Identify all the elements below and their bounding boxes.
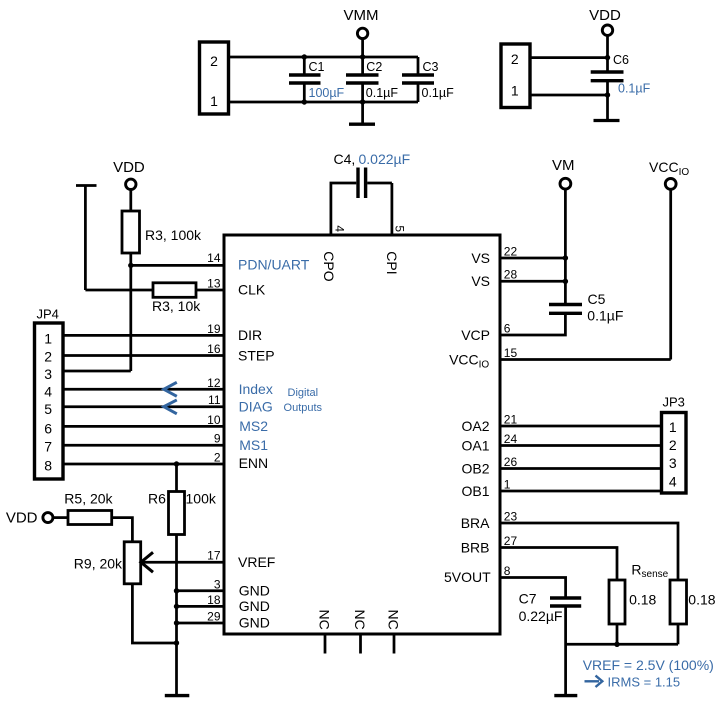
wire JP4-7 to pin9 MS1 (63, 444, 224, 447)
svg-text:VCP: VCP (461, 327, 490, 343)
pin stub NC (1) (324, 634, 327, 654)
svg-text:VMM: VMM (344, 7, 379, 24)
svg-text:1: 1 (44, 331, 52, 347)
wiper arrow of R9 (141, 552, 153, 572)
svg-text:0.1µF: 0.1µF (618, 82, 651, 96)
svg-text:6: 6 (504, 321, 511, 335)
label IRMS formula (blue) (585, 674, 681, 689)
svg-text:2: 2 (210, 53, 218, 69)
svg-text:BRB: BRB (461, 539, 490, 555)
svg-text:Index: Index (239, 381, 273, 397)
svg-text:STEP: STEP (238, 347, 275, 363)
svg-text:26: 26 (504, 455, 518, 469)
wire pin2 rail (228, 56, 418, 59)
wire VM down to C5 (564, 258, 567, 305)
wire bottom rail (566, 643, 678, 646)
svg-text:JP3: JP3 (663, 395, 685, 410)
svg-text:0.18: 0.18 (688, 592, 715, 608)
svg-text:VM: VM (552, 157, 575, 174)
wire pin23 BRA (500, 523, 678, 580)
wire pin14 PDN/UART (131, 264, 224, 267)
svg-text:14: 14 (207, 251, 221, 265)
wire pin24 OA1 (500, 444, 662, 447)
svg-text:C1: C1 (309, 60, 325, 74)
terminal VM (552, 157, 575, 258)
wire C7 bottom to rail (564, 606, 567, 694)
svg-text:2: 2 (669, 437, 677, 453)
svg-text:OA1: OA1 (461, 437, 489, 453)
svg-text:Rsense: Rsense (631, 562, 668, 581)
capacitor C7 (519, 591, 582, 625)
svg-text:VDD: VDD (6, 510, 38, 527)
svg-text:18: 18 (207, 593, 221, 607)
svg-text:R6: R6 (148, 491, 166, 507)
svg-text:23: 23 (504, 509, 518, 523)
svg-text:ENN: ENN (239, 455, 269, 471)
resistor R3, 10k (152, 283, 201, 314)
svg-text:R5, 20k: R5, 20k (64, 491, 113, 507)
node GND 18 (174, 604, 179, 609)
svg-text:0.22µF: 0.22µF (519, 608, 563, 624)
svg-text:28: 28 (504, 268, 518, 282)
node C6 top (605, 55, 610, 60)
svg-text:8: 8 (44, 457, 52, 473)
svg-text:VS: VS (471, 250, 490, 266)
wire pin2 to C6 (530, 56, 608, 59)
node C2 bottom (360, 99, 365, 104)
wire pin1 to C6 (530, 94, 608, 97)
svg-text:0.18: 0.18 (629, 592, 656, 608)
svg-text:R3, 10k: R3, 10k (152, 298, 201, 314)
svg-text:8: 8 (504, 564, 511, 578)
label Digital Outputs (blue) (284, 387, 323, 414)
node VS 22 (563, 255, 568, 260)
svg-text:100k: 100k (186, 491, 217, 507)
svg-text:0.022µF: 0.022µF (359, 151, 411, 167)
ground (below C6) (594, 95, 620, 121)
wire CLK left segment (85, 289, 153, 292)
svg-text:DIR: DIR (238, 327, 262, 343)
capacitor C5 (549, 291, 623, 323)
svg-text:VDD: VDD (113, 159, 145, 176)
svg-text:5VOUT: 5VOUT (444, 569, 491, 585)
svg-text:2: 2 (511, 51, 519, 67)
potentiometer R9, 20k (74, 542, 141, 584)
wire pin1 OB1 (500, 490, 662, 493)
svg-text:GND: GND (239, 598, 270, 614)
svg-text:4: 4 (333, 225, 347, 232)
resistor R3, 100k (122, 211, 202, 265)
svg-text:JP4: JP4 (37, 307, 59, 322)
svg-text:VS: VS (471, 273, 490, 289)
svg-text:VCCIO: VCCIO (649, 159, 689, 178)
svg-text:C2: C2 (366, 60, 382, 74)
node ENN/R6 junction (174, 461, 179, 466)
svg-text:CPI: CPI (384, 251, 400, 274)
node C1 bottom (302, 99, 307, 104)
node GND 29 (174, 620, 179, 625)
pin stub NC (3) (393, 634, 396, 654)
svg-text:C5: C5 (588, 291, 606, 307)
wire JP4-6 to pin10 MS2 (63, 425, 224, 428)
svg-text:GND: GND (239, 583, 270, 599)
svg-text:MS1: MS1 (239, 437, 268, 453)
wire R6 down to ground (175, 535, 178, 695)
svg-text:NC: NC (385, 610, 401, 630)
svg-text:10: 10 (207, 413, 221, 427)
terminal VDD (top right) (589, 7, 621, 58)
node rail/RsenseA junction (614, 642, 619, 647)
svg-text:13: 13 (207, 277, 221, 291)
terminal VDD (left) (113, 159, 145, 211)
wire pin26 OB2 (500, 467, 662, 470)
wire junction down to JP4 pin3 (129, 265, 132, 371)
node bottom junction (174, 640, 179, 645)
node C1 top (302, 54, 307, 59)
svg-text:1: 1 (511, 83, 519, 99)
svg-text:IRMS = 1.15: IRMS = 1.15 (608, 674, 681, 689)
svg-text:MS2: MS2 (239, 418, 268, 434)
wire pin13 CLK (196, 289, 224, 292)
svg-text:22: 22 (504, 244, 518, 258)
wire JP4-3 up to PDN junction (63, 370, 131, 373)
wire pin22 VS (500, 257, 565, 260)
resistor Rsense A (609, 580, 657, 644)
wire pin3 GND (177, 589, 225, 592)
resistor R6, 100k (148, 491, 217, 535)
svg-text:4: 4 (44, 384, 52, 400)
svg-text:9: 9 (214, 432, 221, 446)
svg-text:C3: C3 (423, 60, 439, 74)
wire pin18 GND (177, 605, 225, 608)
svg-text:2: 2 (214, 451, 221, 465)
svg-text:3: 3 (669, 455, 677, 471)
ground (below C2) (349, 102, 375, 124)
svg-text:12: 12 (207, 376, 221, 390)
svg-text:DIAG: DIAG (239, 399, 273, 415)
svg-text:C6: C6 (613, 53, 629, 67)
arrow (blue, pin12 output direction) (164, 382, 177, 396)
svg-text:21: 21 (504, 412, 518, 426)
node R3/PDN junction (128, 263, 133, 268)
svg-text:1: 1 (669, 419, 677, 435)
terminal VMM (344, 7, 379, 57)
svg-text:1: 1 (210, 93, 218, 109)
svg-text:3: 3 (44, 366, 52, 382)
svg-text:24: 24 (504, 432, 518, 446)
svg-text:C4,: C4, (334, 151, 356, 167)
svg-text:OB1: OB1 (461, 483, 489, 499)
wire stub with T-bar (CLK tie) (76, 186, 97, 291)
wire JP4-5 to pin11 DIAG (63, 405, 224, 408)
node C6 bottom (605, 92, 610, 97)
svg-text:27: 27 (504, 534, 518, 548)
connector (2-pin, right) (501, 44, 530, 108)
svg-text:2: 2 (44, 349, 52, 365)
svg-text:OB2: OB2 (461, 460, 489, 476)
wire C5 to pin6 VCP (500, 313, 565, 335)
terminal VCCIO (649, 159, 689, 360)
node C2 top (360, 54, 365, 59)
resistor Rsense B (670, 580, 716, 644)
svg-text:16: 16 (207, 342, 221, 356)
svg-text:1: 1 (504, 477, 511, 491)
capacitor C3 (402, 57, 454, 102)
capacitor C6 (591, 53, 651, 96)
svg-text:15: 15 (504, 346, 518, 360)
wire pin15 VCCIO (500, 358, 671, 361)
svg-text:R9, 20k: R9, 20k (74, 556, 123, 572)
wire JP4-1 to pin19 DIR (63, 334, 224, 337)
wire pin27 BRB (500, 548, 617, 581)
ground (bottom left) (165, 694, 190, 697)
svg-text:19: 19 (207, 322, 221, 336)
pin stub NC (2) (359, 634, 362, 654)
wire JP4-4 to pin12 Index (63, 388, 224, 391)
connector (2-pin, left) (200, 42, 229, 114)
svg-text:5: 5 (393, 225, 407, 232)
svg-text:17: 17 (207, 549, 221, 563)
svg-text:VREF = 2.5V (100%): VREF = 2.5V (100%) (583, 657, 714, 673)
node GND 3 (174, 588, 179, 593)
arrow (blue, pin11 output direction) (164, 400, 177, 414)
wire ENN junction down to R6 (175, 464, 178, 492)
wire JP4-8 to pin2 ENN (63, 463, 224, 466)
svg-text:29: 29 (207, 610, 221, 624)
svg-text:NC: NC (316, 610, 332, 630)
svg-text:Outputs: Outputs (284, 402, 323, 414)
svg-text:100µF: 100µF (309, 86, 345, 100)
wire R9 bottom to junction (132, 584, 176, 643)
svg-text:4: 4 (669, 474, 677, 490)
ground (bottom right) (554, 694, 577, 697)
svg-text:VREF: VREF (238, 554, 275, 570)
svg-text:3: 3 (214, 577, 221, 591)
svg-text:Digital: Digital (288, 387, 319, 399)
node VS 28 (563, 279, 568, 284)
wire pin21 OA2 (500, 425, 662, 428)
wire R5 to R9 top (112, 518, 133, 542)
svg-text:BRA: BRA (461, 515, 490, 531)
svg-text:5: 5 (44, 401, 52, 417)
wire pin1 rail (228, 101, 418, 104)
svg-text:7: 7 (44, 439, 52, 455)
capacitor C4 (331, 151, 410, 235)
capacitor C2 (346, 57, 398, 102)
svg-text:VDD: VDD (589, 7, 621, 24)
svg-text:0.1µF: 0.1µF (422, 86, 455, 100)
svg-text:0.1µF: 0.1µF (587, 307, 623, 323)
svg-text:GND: GND (239, 615, 270, 631)
svg-text:0.1µF: 0.1µF (366, 86, 399, 100)
svg-text:PDN/UART: PDN/UART (238, 257, 310, 273)
svg-text:CLK: CLK (238, 282, 266, 298)
resistor R5, 20k (64, 491, 113, 525)
capacitor C1 (289, 57, 345, 102)
terminal VDD (bottom left) (6, 510, 68, 527)
connector JP3 (662, 395, 687, 494)
svg-text:C7: C7 (519, 591, 537, 607)
svg-text:OA2: OA2 (461, 418, 489, 434)
connector JP4 (35, 307, 64, 480)
svg-text:11: 11 (208, 393, 221, 407)
svg-text:R3, 100k: R3, 100k (145, 227, 202, 243)
IC U1 (driver) body (224, 235, 500, 634)
wire pin8 5VOUT to C7 (500, 578, 566, 599)
wire JP4-2 to pin16 STEP (63, 354, 224, 357)
wire pin29 GND (177, 622, 225, 625)
svg-text:6: 6 (44, 421, 52, 437)
wire pin28 VS (500, 280, 565, 283)
svg-text:NC: NC (352, 610, 368, 630)
svg-text:CPO: CPO (321, 251, 337, 281)
wire pin17 VREF (141, 561, 224, 564)
